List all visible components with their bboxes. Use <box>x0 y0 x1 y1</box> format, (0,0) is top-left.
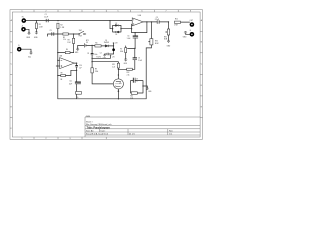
title block outline <box>85 117 200 137</box>
junction R4 left <box>57 52 58 53</box>
svg-text:100n: 100n <box>94 54 97 56</box>
svg-text:Title: Paralelogram: Title: Paralelogram <box>87 125 111 129</box>
resistor R9 <box>91 68 99 73</box>
wire plate chain <box>117 68 119 79</box>
svg-text:R13: R13 <box>130 95 133 97</box>
capacitor C4 (decoupling) <box>100 53 109 56</box>
capacitor C6 (polarized) <box>127 35 139 40</box>
resistor R6 <box>95 42 101 47</box>
wire J3 to gnd <box>21 49 31 52</box>
ground stub right of RC loop <box>146 88 148 90</box>
wire mid vertical x92 <box>92 45 113 84</box>
svg-text:D2: D2 <box>115 23 117 25</box>
resistor R10 <box>174 19 180 27</box>
capacitor C5 <box>155 17 159 24</box>
svg-text:1.1k: 1.1k <box>63 39 66 41</box>
svg-text:+9V: +9V <box>112 56 115 58</box>
svg-text:1.1M: 1.1M <box>39 27 43 29</box>
sheet frame inner <box>12 12 200 137</box>
svg-text:C6: C6 <box>127 35 129 37</box>
svg-text:C10: C10 <box>79 65 82 67</box>
svg-text:+9V: +9V <box>115 43 118 45</box>
diode D3 <box>116 31 119 33</box>
frame zone digits <box>11 11 203 141</box>
connector J5 (battery jack) <box>17 45 22 52</box>
svg-text:1.1uF: 1.1uF <box>127 38 131 40</box>
wire R7 drop <box>125 46 127 59</box>
svg-text:1: 1 <box>22 11 23 13</box>
svg-text:F: F <box>11 128 12 130</box>
wire feedback lower <box>132 22 147 33</box>
svg-text:R10: R10 <box>175 19 178 21</box>
resistor R1 <box>35 23 43 29</box>
svg-text:C11: C11 <box>69 81 72 83</box>
svg-text:U1B: U1B <box>59 55 62 57</box>
svg-text:R9: R9 <box>95 69 97 71</box>
svg-text:2.2uF: 2.2uF <box>155 19 159 21</box>
tube U4 <box>113 79 123 89</box>
svg-text:R8: R8 <box>61 72 63 74</box>
svg-text:7: 7 <box>166 11 167 13</box>
svg-text:1N4148: 1N4148 <box>104 42 109 44</box>
svg-text:C3: C3 <box>50 30 52 32</box>
wire U2 output chain <box>74 63 76 99</box>
wire y48 stub <box>128 47 135 49</box>
svg-text:R12: R12 <box>127 72 130 74</box>
node dot (big) <box>112 48 115 51</box>
svg-text:Sheet: /: Sheet: / <box>86 120 93 123</box>
svg-text:Rev:: Rev: <box>169 130 174 132</box>
svg-text:GBS: GBS <box>86 116 91 118</box>
frame tick marks <box>10 10 203 140</box>
svg-text:1uF: 1uF <box>79 68 82 70</box>
wire U1 output <box>143 21 157 23</box>
capacitor C1 <box>44 14 48 22</box>
wire top rail <box>26 20 132 22</box>
capacitor C11 (polarized) <box>69 81 81 86</box>
svg-text:4: 4 <box>94 11 95 13</box>
resistor R3 <box>67 38 75 44</box>
svg-text:R3: R3 <box>68 40 70 42</box>
capacitor C3 <box>50 30 54 36</box>
svg-text:2.1k: 2.1k <box>127 74 130 76</box>
wire RC loop right stub <box>143 86 147 88</box>
wire diode loop drop <box>110 21 113 29</box>
svg-text:J5: J5 <box>18 45 20 47</box>
wire R1 drop <box>35 21 37 32</box>
svg-text:2.2k: 2.2k <box>112 67 115 69</box>
wire R6-D1-node <box>101 45 113 47</box>
svg-text:D3: D3 <box>115 34 117 36</box>
svg-text:3: 3 <box>70 11 71 13</box>
svg-text:6: 6 <box>142 11 143 13</box>
capacitor C9 <box>133 78 138 83</box>
svg-text:1u: 1u <box>136 81 138 83</box>
power flag +9V right <box>110 55 115 58</box>
wire J4 to gnd <box>186 33 190 36</box>
switch SW1 <box>78 30 85 38</box>
svg-text:R6: R6 <box>95 42 97 44</box>
svg-text:J4: J4 <box>190 30 192 32</box>
resistor R7 <box>120 48 127 54</box>
wire diode loop <box>113 25 121 32</box>
svg-text:Date:: Date: <box>101 129 106 132</box>
svg-text:R4: R4 <box>66 49 68 51</box>
wire J2 to gnd <box>26 29 29 32</box>
ground below RV2 <box>167 40 170 42</box>
svg-text:220k: 220k <box>95 71 99 73</box>
svg-text:TL072: TL072 <box>96 57 101 59</box>
battery BT1 <box>85 40 90 48</box>
wire R3 R4 chain <box>58 34 74 53</box>
svg-text:2: 2 <box>46 138 47 140</box>
svg-text:10uF: 10uF <box>69 83 72 85</box>
connector J4 jack <box>190 30 195 37</box>
wire plate branch right <box>118 33 135 70</box>
svg-text:2.2uF: 2.2uF <box>138 60 142 62</box>
op-amp U2 <box>59 55 74 68</box>
svg-text:3: 3 <box>70 138 71 140</box>
ground below J2 <box>28 32 31 34</box>
svg-text:GND: GND <box>103 57 106 59</box>
power flag +9V <box>113 42 118 44</box>
wire feedback R8 row <box>58 70 77 75</box>
wire B+ rail <box>92 62 118 64</box>
ground at J4 <box>184 32 187 34</box>
capacitor C7 <box>133 57 143 62</box>
svg-text:5: 5 <box>118 11 119 13</box>
svg-text:100k: 100k <box>120 51 124 53</box>
potentiometer RV2 <box>164 29 170 41</box>
svg-text:Id: 1/1: Id: 1/1 <box>129 134 135 136</box>
svg-text:1: 1 <box>22 138 23 140</box>
ground below R7 <box>124 59 127 61</box>
ground below J5 <box>30 52 33 54</box>
capacitor C8 <box>87 53 97 56</box>
wire switch stub <box>84 33 87 35</box>
svg-text:C4: C4 <box>100 53 102 55</box>
diode D1 <box>104 40 109 47</box>
svg-text:SW1: SW1 <box>79 30 82 32</box>
tube pin circle <box>118 90 120 92</box>
svg-text:KiCad E.D.A. kicad 8.0.4: KiCad E.D.A. kicad 8.0.4 <box>86 133 109 136</box>
junction dots <box>36 20 169 100</box>
svg-text:Size: A4: Size: A4 <box>86 129 94 132</box>
svg-text:C9: C9 <box>136 78 138 80</box>
svg-text:R5: R5 <box>63 37 65 39</box>
wire +9V stub <box>113 43 115 46</box>
svg-text:9V: 9V <box>86 42 88 44</box>
sheet frame outer <box>10 10 203 140</box>
svg-text:J2: J2 <box>22 25 24 27</box>
connector J2 <box>21 25 26 31</box>
wire pot2 drop <box>168 22 170 40</box>
svg-text:R11: R11 <box>112 64 115 66</box>
svg-text:RV2: RV2 <box>164 36 167 38</box>
diode D2 <box>115 24 118 26</box>
svg-text:470R: 470R <box>174 25 177 27</box>
resistor R14 <box>76 92 82 99</box>
resistor R5 <box>63 33 68 41</box>
svg-text:U4: U4 <box>119 82 121 84</box>
wire pot1 drop <box>150 22 152 39</box>
ground below C4 <box>103 54 105 56</box>
svg-text:D1: D1 <box>105 40 107 42</box>
svg-text:8: 8 <box>190 11 191 13</box>
wire node to dot and decoupling cap <box>105 46 114 55</box>
svg-text:2: 2 <box>46 11 47 13</box>
svg-text:GND: GND <box>148 91 151 93</box>
svg-text:1.1M: 1.1M <box>60 27 64 29</box>
wire V+ flag <box>92 56 110 58</box>
svg-text:OUT: OUT <box>190 20 194 22</box>
svg-text:C7: C7 <box>138 57 140 59</box>
resistor R2 <box>57 23 65 29</box>
wire C5 to J-out <box>159 21 190 23</box>
ground below R1 <box>35 32 38 34</box>
resistor R12 (branch) <box>127 68 133 76</box>
potentiometer RV1 <box>148 39 159 45</box>
wire battery branch <box>78 45 95 48</box>
resistor R4 <box>65 49 70 54</box>
svg-text:BT1: BT1 <box>86 40 89 42</box>
resistor R8 (feedback) <box>60 72 65 80</box>
svg-text:1.5k: 1.5k <box>130 98 133 100</box>
svg-text:RV1: RV1 <box>155 40 158 42</box>
connector J3 OUT jack <box>190 20 195 27</box>
wire diode mid to opamp <box>121 24 132 29</box>
wire RC loop <box>131 81 144 93</box>
svg-text:C8: C8 <box>87 53 89 55</box>
op-amp U1 <box>132 14 143 26</box>
svg-text:R7: R7 <box>120 49 122 51</box>
resistor R11 (plate) <box>112 63 119 68</box>
wire lower rail <box>48 34 79 36</box>
capacitor C10 <box>75 65 82 69</box>
ground below BT1 <box>76 48 79 50</box>
resistor R13 <box>130 92 137 100</box>
wire U2 input stubs <box>56 60 59 66</box>
wire cathode <box>117 89 119 99</box>
connector J1 (IN jack) <box>22 17 27 23</box>
svg-text:1.1uF: 1.1uF <box>44 16 48 18</box>
wire left long vertical <box>58 29 152 99</box>
